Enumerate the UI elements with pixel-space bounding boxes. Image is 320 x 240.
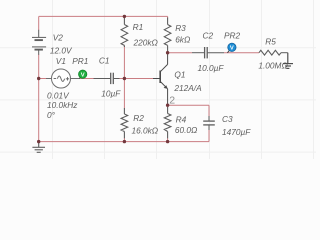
svg-text:PR1: PR1 [72,56,88,66]
transistor Q1 [153,53,168,105]
wire R3 top stub [167,16,169,18]
svg-text:1470µF: 1470µF [222,127,251,137]
svg-text:12.0V: 12.0V [50,46,73,56]
wire bottom rail [39,141,209,143]
node: collector [166,51,169,54]
wire V1 left lead [39,78,47,80]
resistor R1 [121,18,128,48]
wire C2 to R5 [224,52,259,54]
resistor R4 [164,107,171,138]
source V1 [46,69,80,88]
svg-text:60.0Ω: 60.0Ω [175,125,198,135]
probe PR2 [227,43,236,53]
battery V2 [32,30,46,55]
svg-text:10µF: 10µF [101,88,121,98]
svg-text:R3: R3 [175,23,186,33]
node: R1 top / rail [123,15,126,18]
svg-text:6kΩ: 6kΩ [175,35,191,45]
svg-text:R5: R5 [265,36,276,46]
svg-text:R4: R4 [176,114,187,124]
svg-text:2: 2 [169,95,175,107]
wire R1 bottom to base node [123,45,125,78]
ground (right of R5) [283,53,293,69]
node: V1 tap on left rail [37,77,40,80]
svg-text:PR2: PR2 [224,30,241,40]
node: emitter [166,104,169,107]
node: base [123,77,126,80]
wire collector node to C2 [168,52,192,54]
node: R4 bottom [166,140,169,143]
wire R3 bottom node stub [167,51,169,53]
svg-text:C2: C2 [203,30,214,40]
svg-text:220kΩ: 220kΩ [133,37,159,47]
node: R2 bottom [123,140,126,143]
wire C3 branch [208,105,210,120]
node: ground rail left [37,140,40,143]
wire C1 to Q1 base [119,78,153,80]
ground (bottom left) [32,142,45,153]
wire emitter node row [168,104,209,106]
probe PR1 [79,70,87,79]
wire R4 branch [167,105,169,107]
svg-text:V1: V1 [56,56,66,66]
wires (red) [39,16,259,141]
svg-text:10.0µF: 10.0µF [198,63,225,73]
svg-text:V: V [81,72,85,78]
capacitor C1 [94,73,120,84]
wire R2 top [123,79,125,109]
svg-text:V: V [230,46,234,52]
svg-text:Q1: Q1 [174,69,185,79]
svg-text:R1: R1 [133,22,144,32]
svg-text:R2: R2 [133,113,144,123]
svg-text:C3: C3 [222,114,233,124]
svg-text:1.00MΩ: 1.00MΩ [258,60,288,70]
resistor R2 [121,108,128,138]
wire R2 bottom [123,138,125,142]
resistor R5 [259,50,288,55]
capacitor C3 [203,116,215,130]
wire V1 right to C1 [80,78,94,80]
wire R1 top stub [123,16,125,18]
svg-text:16.0kΩ: 16.0kΩ [132,125,159,135]
svg-text:C1: C1 [99,55,110,65]
svg-text:0°: 0° [47,110,56,120]
svg-text:0.01V: 0.01V [47,90,70,100]
wire top rail V2+ to R3 top [39,15,168,17]
svg-text:212A/A: 212A/A [173,83,202,93]
resistor R3 [164,18,171,52]
svg-text:10.0kHz: 10.0kHz [47,100,78,110]
svg-text:V2: V2 [53,32,64,42]
capacitor C2 [192,47,224,58]
wire left rail [38,16,40,30]
